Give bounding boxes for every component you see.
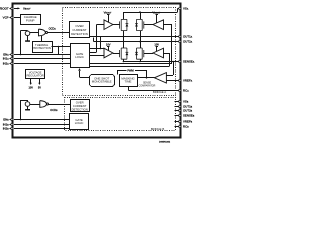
svg-text:OVERCURRENTDETECTION: OVERCURRENTDETECTION — [71, 24, 88, 36]
svg-text:THERMALPROTECTION: THERMALPROTECTION — [33, 43, 51, 50]
svg-text:10V: 10V — [154, 42, 159, 46]
svg-text:VBOOT: VBOOT — [104, 11, 112, 15]
svg-text:ENB: ENB — [3, 118, 9, 122]
svg-text:SENSEA: SENSEA — [183, 60, 195, 64]
svg-text:OUT1A: OUT1A — [183, 35, 193, 39]
svg-text:PWM: PWM — [127, 68, 133, 72]
svg-text:OCDB: OCDB — [50, 108, 58, 112]
svg-text:CHARGEPUMP: CHARGEPUMP — [24, 15, 37, 22]
svg-text:OUT2B: OUT2B — [183, 109, 193, 113]
svg-text:VREFA: VREFA — [183, 79, 193, 83]
svg-text:VCP: VCP — [3, 16, 9, 20]
svg-text:10V: 10V — [28, 86, 33, 89]
svg-text:ONE SHOTMONOSTABLE: ONE SHOTMONOSTABLE — [92, 77, 112, 84]
svg-text:RCB: RCB — [183, 125, 189, 129]
svg-text:VBOOT: VBOOT — [23, 7, 31, 11]
svg-text:VBOOT: VBOOT — [0, 7, 9, 11]
svg-text:GATELOGIC: GATELOGIC — [75, 52, 84, 59]
svg-text:MASKINGTIME: MASKINGTIME — [121, 77, 135, 84]
svg-text:VBOOT: VBOOT — [152, 11, 160, 15]
svg-text:OVERCURRENTDETECTION: OVERCURRENTDETECTION — [72, 100, 88, 111]
svg-text:10V: 10V — [106, 42, 111, 46]
svg-text:VOLTAGEREGULATOR: VOLTAGEREGULATOR — [27, 70, 44, 77]
svg-text:D99IN1082: D99IN1082 — [159, 142, 171, 144]
svg-text:GATELOGIC: GATELOGIC — [75, 118, 84, 125]
svg-text:VSB: VSB — [183, 100, 189, 104]
svg-text:IN1A: IN1A — [3, 57, 10, 61]
svg-text:OUT2A: OUT2A — [183, 40, 193, 44]
svg-text:5V: 5V — [38, 86, 41, 89]
svg-text:RCA: RCA — [183, 89, 189, 93]
svg-text:BRIDGE A: BRIDGE A — [153, 90, 166, 94]
svg-text:IN2B: IN2B — [3, 127, 10, 131]
svg-text:VSA: VSA — [183, 7, 189, 11]
svg-text:IN2A: IN2A — [3, 62, 10, 66]
svg-text:OCDA: OCDA — [49, 26, 57, 30]
svg-text:VREFB: VREFB — [183, 120, 193, 124]
svg-text:SENSECOMPARATOR: SENSECOMPARATOR — [139, 82, 156, 88]
svg-text:BRIDGE B: BRIDGE B — [151, 127, 165, 131]
svg-text:SENSEB: SENSEB — [183, 114, 195, 118]
